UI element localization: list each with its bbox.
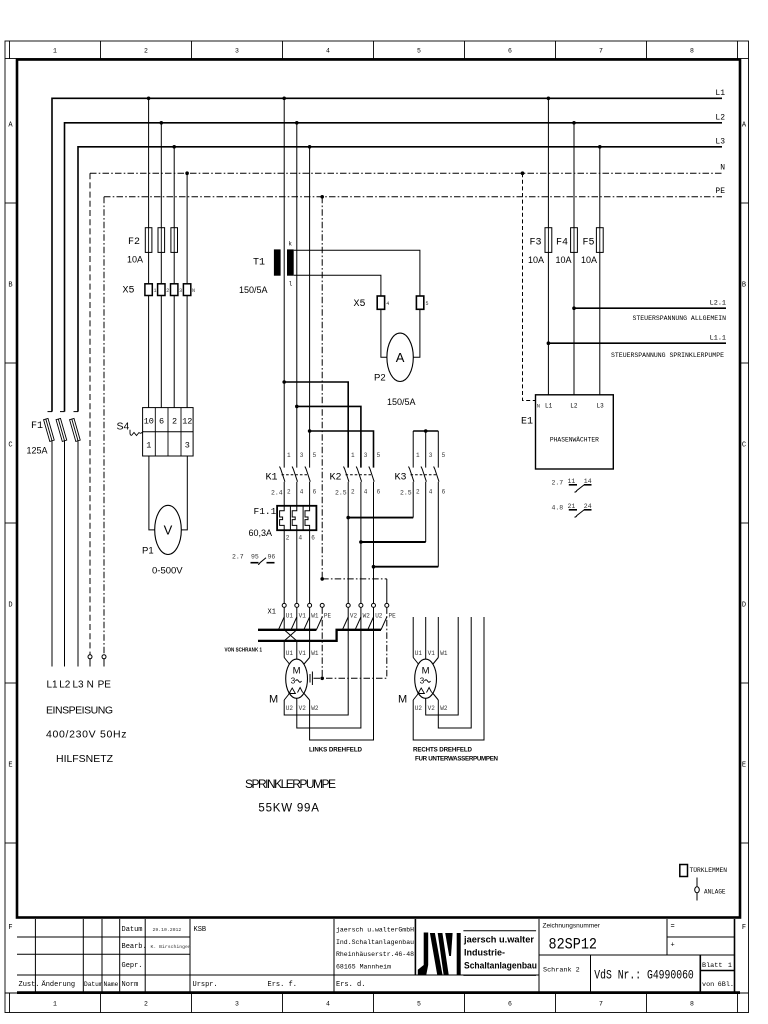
svg-text:6Bl.: 6Bl. — [718, 981, 734, 989]
label X1 — [268, 609, 276, 617]
svg-text:1: 1 — [728, 962, 732, 970]
fuse-switch F1 pole 1 — [44, 412, 55, 667]
svg-text:2.7: 2.7 — [552, 480, 564, 487]
fuse F4 — [571, 228, 578, 395]
svg-text:Zeichnungsnummer: Zeichnungsnummer — [543, 922, 601, 929]
T1GROUP — [239, 98, 429, 579]
svg-text:10A: 10A — [581, 255, 597, 265]
svg-text:M: M — [422, 666, 430, 677]
motor PE bonding line — [310, 672, 387, 686]
svg-text:8: 8 — [690, 1001, 694, 1008]
svg-text:F: F — [8, 924, 12, 932]
terminal X5:5 — [416, 296, 428, 309]
svg-text:0-500V: 0-500V — [152, 566, 183, 577]
wire main phase L3 down — [309, 147, 311, 468]
svg-text:10A: 10A — [556, 255, 572, 265]
svg-text:jaersch u.walterGmbH: jaersch u.walterGmbH — [336, 927, 414, 934]
svg-text:F: F — [742, 924, 746, 932]
svg-text:6: 6 — [442, 489, 446, 496]
svg-text:SPRINKLERPUMPE: SPRINKLERPUMPE — [245, 777, 336, 791]
svg-text:U2: U2 — [415, 705, 423, 712]
svg-text:PE: PE — [715, 187, 725, 196]
svg-text:N: N — [192, 288, 195, 294]
node L2 label — [715, 114, 725, 123]
wire K3 to K2 tap 2 — [359, 540, 426, 544]
svg-text:F4: F4 — [556, 238, 568, 249]
svg-text:V1: V1 — [299, 650, 307, 657]
svg-text:5: 5 — [377, 452, 381, 459]
svg-text:VON SCHRANK 1: VON SCHRANK 1 — [225, 648, 263, 654]
svg-text:K1: K1 — [266, 473, 278, 484]
svg-text:11: 11 — [568, 478, 576, 485]
svg-text:S4: S4 — [117, 421, 130, 433]
fuse F2 pole 1 — [145, 228, 152, 284]
aux contact E1 11-14 — [552, 478, 592, 492]
svg-text:V2: V2 — [350, 613, 358, 620]
label M (left motor) — [269, 694, 278, 706]
svg-text:3: 3 — [420, 677, 425, 686]
label F2 — [128, 237, 140, 248]
svg-text:EINSPEISUNG: EINSPEISUNG — [46, 705, 113, 717]
wire bus PE — [104, 197, 722, 655]
svg-text:1: 1 — [154, 288, 157, 294]
svg-text:Datum: Datum — [84, 981, 103, 988]
K3 pin numbers — [416, 452, 446, 496]
svg-text:29.10.2012: 29.10.2012 — [153, 927, 182, 933]
current transformer T1 — [274, 241, 294, 288]
wire L2.1 control line — [572, 306, 726, 310]
svg-text:5: 5 — [442, 452, 446, 459]
svg-text:STEUERSPANNUNG ALLGEMEIN: STEUERSPANNUNG ALLGEMEIN — [633, 315, 727, 322]
motor M2 labels U2 V2 W2 — [415, 705, 448, 712]
svg-text:12: 12 — [182, 417, 192, 427]
equals plus cells — [671, 923, 675, 950]
KGROUP — [232, 380, 446, 619]
blatt cells — [702, 962, 734, 989]
svg-text:X5: X5 — [123, 286, 135, 297]
svg-text:V2: V2 — [428, 705, 436, 712]
wire K3 to K2 tap 3 — [372, 565, 439, 569]
label F1.1 — [254, 506, 277, 517]
svg-text:10A: 10A — [528, 255, 544, 265]
svg-text:4.8: 4.8 — [552, 505, 564, 512]
svg-text:L1: L1 — [715, 89, 725, 98]
wire feed bus A from Schrank 1 — [258, 629, 316, 631]
svg-text:Ers. d.: Ers. d. — [336, 981, 365, 989]
label F1 — [31, 421, 43, 432]
plant connector symbol — [695, 878, 700, 901]
label 400/230V 50Hz — [46, 729, 127, 741]
fuse F5 — [596, 228, 603, 395]
drawing number cell — [543, 922, 601, 953]
svg-text:V1: V1 — [299, 613, 307, 620]
wire N feeder to E1 (dashed) — [523, 173, 536, 400]
svg-text:V1: V1 — [428, 650, 436, 657]
svg-text:60,3A: 60,3A — [249, 528, 273, 538]
label 10A F3 — [528, 255, 544, 265]
svg-text:K2: K2 — [330, 473, 342, 484]
terminal X1:U1 — [282, 603, 293, 619]
svg-text:Schrank 2: Schrank 2 — [543, 967, 580, 975]
motor M2 feed wires — [413, 617, 438, 660]
wire branch L3 to K2 — [308, 429, 374, 467]
svg-text:3: 3 — [185, 441, 190, 451]
terminal X5:2 — [158, 284, 170, 296]
wires X5 to S4 — [149, 296, 188, 408]
svg-text:B: B — [742, 282, 746, 290]
terminal X5:4 — [377, 296, 389, 309]
svg-text:Änderung: Änderung — [42, 980, 76, 989]
svg-text:3: 3 — [300, 452, 304, 459]
svg-text:1: 1 — [53, 1001, 57, 1008]
svg-text:STEUERSPANNUNG SPRINKLERPUMPE: STEUERSPANNUNG SPRINKLERPUMPE — [611, 352, 724, 359]
svg-text:V2: V2 — [299, 705, 307, 712]
svg-text:B: B — [8, 282, 12, 290]
svg-text:E1: E1 — [521, 417, 533, 428]
svg-text:l: l — [289, 281, 293, 288]
svg-text:L2.1: L2.1 — [710, 300, 726, 308]
svg-text:FUR UNTERWASSERPUMPEN: FUR UNTERWASSERPUMPEN — [415, 756, 499, 763]
label VON SCHRANK 1 — [225, 648, 263, 654]
ref 2.5 — [335, 490, 347, 497]
svg-text:U2: U2 — [286, 705, 294, 712]
svg-text:W1: W1 — [311, 650, 319, 657]
junction dots on buses for F2 feeder — [147, 97, 189, 176]
svg-text:V: V — [164, 523, 173, 538]
label EINSPEISUNG — [46, 705, 113, 717]
svg-text:1: 1 — [53, 48, 57, 55]
svg-text:L2: L2 — [715, 114, 725, 123]
svg-text:2.5: 2.5 — [335, 490, 347, 497]
svg-text:W2: W2 — [311, 705, 319, 712]
svg-text:PE: PE — [98, 680, 112, 691]
wire main phase L2 down — [296, 123, 298, 468]
ref 2.5 — [400, 490, 412, 497]
wire feed bus B from Schrank 1 — [258, 630, 381, 641]
svg-text:P2: P2 — [374, 373, 386, 384]
label TÜRKLEMMEN — [690, 866, 728, 874]
svg-text:55KW 99A: 55KW 99A — [258, 803, 319, 815]
svg-text:PE: PE — [389, 613, 397, 620]
terminal X5:3 — [171, 284, 183, 296]
svg-text:Urspr.: Urspr. — [193, 981, 218, 989]
node N label — [720, 164, 725, 173]
label HILFSNETZ — [56, 753, 114, 765]
svg-text:3: 3 — [235, 48, 239, 55]
wire F4 feeder — [573, 123, 575, 228]
svg-text:M: M — [269, 694, 278, 706]
svg-text:Gepr.: Gepr. — [122, 962, 143, 970]
svg-text:F1.1: F1.1 — [254, 506, 277, 517]
label P1 — [142, 546, 154, 557]
fuse F3 — [545, 228, 552, 395]
svg-text:L3: L3 — [597, 403, 605, 410]
svg-text:W1: W1 — [440, 650, 448, 657]
label X5 (meter terminals) — [354, 299, 366, 310]
wire F5 feeder — [599, 147, 601, 228]
svg-text:1: 1 — [287, 452, 291, 459]
label T1 — [253, 258, 265, 269]
wire main phase L1 down — [283, 98, 285, 467]
svg-text:W2: W2 — [363, 613, 371, 620]
svg-text:F1: F1 — [31, 421, 43, 432]
label K1 — [266, 473, 278, 484]
wires F1.1 to X1 — [284, 530, 309, 603]
svg-text:LINKS DREHFELD: LINKS DREHFELD — [309, 747, 363, 754]
svg-text:Name: Name — [104, 981, 119, 988]
node L1.1 label — [710, 335, 726, 343]
svg-text:3: 3 — [179, 288, 182, 294]
motor M1 — [284, 658, 309, 699]
svg-text:14: 14 — [584, 478, 592, 485]
right row letter strip — [740, 122, 749, 933]
wire F3 feeder — [547, 98, 549, 227]
svg-text:L1: L1 — [545, 403, 553, 410]
wire loop M2 V2 — [426, 617, 459, 715]
F1.1 pin numbers 2 4 6 — [286, 535, 316, 542]
svg-text:5: 5 — [417, 48, 421, 55]
svg-text:Ers. f.: Ers. f. — [268, 981, 297, 989]
wire branch L1 to K2 — [282, 380, 348, 467]
wire loop M2 U2 — [413, 617, 484, 740]
svg-text:4: 4 — [386, 301, 389, 307]
svg-text:2.5: 2.5 — [400, 490, 412, 497]
svg-text:4: 4 — [300, 489, 304, 496]
wire bus L2 — [65, 123, 723, 412]
svg-text:K3: K3 — [395, 473, 407, 484]
svg-text:Zust.: Zust. — [19, 981, 40, 989]
svg-text:+: + — [671, 942, 675, 950]
wire loop M2 W2 — [438, 617, 471, 728]
svg-text:21: 21 — [568, 503, 576, 510]
svg-text:C: C — [742, 442, 746, 450]
contactor K1 contacts — [280, 467, 311, 506]
terminal stubs and taps X1 group 2 — [342, 617, 386, 630]
company address — [336, 927, 414, 971]
svg-text:N: N — [720, 164, 725, 173]
svg-text:HILFSNETZ: HILFSNETZ — [56, 753, 114, 765]
svg-text:PHASENWÄCHTER: PHASENWÄCHTER — [550, 436, 599, 444]
wire bus N — [90, 173, 722, 655]
aux contact E1 21-24 — [552, 503, 592, 517]
svg-text:RECHTS DREHFELD: RECHTS DREHFELD — [413, 747, 473, 754]
svg-text:2: 2 — [286, 535, 290, 542]
terminal X5:N — [183, 284, 195, 296]
label X5 — [123, 286, 135, 297]
svg-text:Norm: Norm — [122, 981, 139, 989]
label K2 — [330, 473, 342, 484]
svg-text:95: 95 — [251, 554, 259, 561]
svg-text:von: von — [702, 981, 714, 989]
svg-text:3: 3 — [364, 452, 368, 459]
terminal X5:1 — [145, 284, 157, 296]
wire L1.1 control line — [547, 341, 726, 345]
terminal circle N — [88, 655, 92, 667]
svg-text:2.4: 2.4 — [271, 490, 283, 497]
terminal X1:V1 — [295, 603, 306, 619]
svg-text:L2: L2 — [570, 403, 578, 410]
node L3 label — [715, 138, 725, 147]
overload relay F1.1 — [277, 506, 316, 530]
svg-text:E: E — [742, 762, 746, 770]
svg-text:U1: U1 — [286, 650, 294, 657]
TITLEBLOCK — [17, 919, 740, 993]
svg-text:1: 1 — [416, 452, 420, 459]
label FUR UNTERWASSERPUMPEN — [415, 756, 499, 763]
label 0-500V — [152, 566, 183, 577]
svg-text:Rheinhäuserstr.46-48: Rheinhäuserstr.46-48 — [336, 951, 414, 958]
label M (right motor) — [398, 694, 407, 706]
svg-text:M: M — [293, 666, 301, 677]
fuse F2 pole 3 — [171, 228, 178, 284]
svg-text:96: 96 — [268, 554, 276, 561]
label 150/5A — [239, 285, 268, 295]
terminal X1:PE2 — [385, 603, 396, 619]
BUSES — [52, 89, 725, 655]
svg-text:K. Birschinger: K. Birschinger — [151, 944, 191, 950]
switch S4 box — [143, 408, 194, 456]
title block grid — [17, 919, 740, 993]
motor M1 bottom stubs — [284, 693, 309, 701]
svg-text:6: 6 — [159, 417, 164, 427]
label F4 — [556, 238, 568, 249]
DOOR — [680, 865, 727, 901]
svg-text:5: 5 — [426, 301, 429, 307]
label STEUERSPANNUNG SPRINKLERPUMPE — [611, 352, 724, 359]
wire PE branch to X1 — [320, 577, 386, 603]
svg-text:1: 1 — [351, 452, 355, 459]
wire CT secondary k — [294, 250, 420, 296]
svg-text:7: 7 — [599, 48, 603, 55]
svg-text:2.7: 2.7 — [232, 554, 244, 561]
bottom column strip — [10, 993, 738, 1013]
svg-text:7: 7 — [599, 1001, 603, 1008]
svg-text:6: 6 — [508, 1001, 512, 1008]
svg-text:3: 3 — [291, 677, 296, 686]
label ANLAGE — [704, 889, 726, 896]
svg-text:4: 4 — [429, 489, 433, 496]
svg-text:L1.1: L1.1 — [710, 335, 726, 343]
svg-text:3: 3 — [429, 452, 433, 459]
svg-text:2: 2 — [144, 1001, 148, 1008]
voltmeter P1 — [155, 505, 182, 554]
svg-text:4: 4 — [326, 48, 330, 55]
svg-text:8: 8 — [690, 48, 694, 55]
wire branch L2 to K2 — [295, 405, 361, 468]
svg-text:Blatt: Blatt — [702, 962, 722, 970]
svg-text:2: 2 — [144, 48, 148, 55]
svg-text:D: D — [8, 602, 12, 610]
svg-text:L3: L3 — [72, 680, 84, 691]
node L1 label — [715, 89, 725, 98]
svg-text:125A: 125A — [27, 446, 48, 456]
node L2.1 label — [710, 300, 726, 308]
svg-text:N: N — [87, 680, 94, 691]
svg-text:5: 5 — [417, 1001, 421, 1008]
label LINKS DREHFELD — [309, 747, 363, 754]
label RECHTS DREHFELD — [413, 747, 473, 754]
svg-text:L2: L2 — [59, 680, 71, 691]
node PE label — [715, 187, 725, 196]
K1 pin numbers — [287, 452, 317, 496]
svg-text:PE: PE — [324, 613, 332, 620]
junction dots on buses for control feeder — [521, 97, 602, 176]
wire PE down — [321, 197, 323, 579]
svg-text:U1: U1 — [415, 650, 423, 657]
svg-text:4: 4 — [364, 489, 368, 496]
svg-text:6: 6 — [508, 48, 512, 55]
wire F2 feeders — [149, 98, 188, 283]
K2 pin numbers — [351, 452, 381, 496]
fuse F2 pole 2 — [158, 228, 165, 284]
svg-text:X1: X1 — [268, 609, 276, 617]
ref 2.4 — [271, 490, 283, 497]
phase monitor E1 box — [536, 395, 614, 469]
svg-text:C: C — [8, 442, 12, 450]
svg-text:F3: F3 — [530, 238, 542, 249]
svg-text:U1: U1 — [286, 613, 294, 620]
terminal X1:PE1 — [320, 603, 331, 619]
svg-text:L1: L1 — [46, 680, 58, 691]
title small values — [151, 926, 207, 950]
label F5 — [583, 238, 595, 249]
label 125A — [27, 446, 48, 456]
wire PE1 column to motor PE line — [320, 607, 324, 680]
terminal circle PE — [102, 655, 106, 667]
terminal stubs and taps X1 group 1 — [278, 607, 322, 657]
motor M2 labels U1 V1 W1 — [415, 650, 448, 657]
motor M1 labels U2 V2 W2 — [286, 705, 319, 712]
svg-text:W2: W2 — [440, 705, 448, 712]
wires S4 to voltmeter — [149, 456, 187, 530]
svg-text:1: 1 — [146, 441, 151, 451]
terminal X1:U2 — [372, 603, 383, 619]
fuse-switch F1 pole 3 — [70, 412, 81, 667]
wire loop M1 W2 — [310, 607, 374, 740]
svg-text:150/5A: 150/5A — [239, 285, 268, 295]
label 10A F4 — [556, 255, 572, 265]
top column strip — [10, 41, 738, 59]
svg-text:N: N — [537, 403, 540, 410]
main drawing border — [17, 60, 740, 918]
motor M1 labels U1 V1 W1 — [286, 650, 319, 657]
terminal X1:V2 — [346, 603, 357, 619]
svg-text:10: 10 — [144, 417, 154, 427]
svg-text:U2: U2 — [375, 613, 383, 620]
phase swap crossing — [284, 630, 297, 660]
terminal X1:W1 — [308, 603, 319, 619]
svg-text:24: 24 — [584, 503, 592, 510]
svg-text:150/5A: 150/5A — [387, 397, 416, 407]
svg-text:F5: F5 — [583, 238, 595, 249]
logo text — [463, 934, 537, 970]
motor M2 bottom stubs — [413, 693, 438, 701]
wires X5 to ammeter — [381, 309, 420, 357]
label SPRINKLERPUMPE — [245, 777, 336, 791]
label F3 — [530, 238, 542, 249]
fuse-switch F1 pole 2 — [56, 412, 67, 667]
svg-text:2: 2 — [287, 489, 291, 496]
title row labels — [19, 926, 366, 989]
wire bus L1 — [52, 98, 722, 411]
wire bus L3 — [78, 147, 722, 412]
svg-text:A: A — [396, 350, 405, 365]
svg-text:D: D — [742, 602, 746, 610]
F2GROUP — [117, 98, 196, 576]
wire PE2 column down — [386, 607, 388, 678]
svg-text:2: 2 — [172, 417, 177, 427]
svg-text:6: 6 — [311, 535, 315, 542]
